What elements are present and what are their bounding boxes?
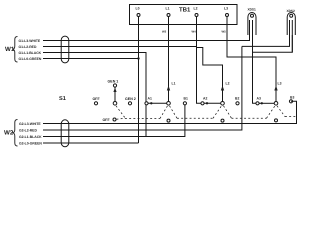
switch S1 pivot 2 [221,102,225,106]
svg-text:S1: S1 [59,96,66,102]
switch S1 pivot 1 [167,102,171,106]
switch S1 contact B1 [183,102,186,105]
wire G1-L0-GREEN from W1 to L0 riser junction [43,58,139,60]
svg-text:B1: B1 [184,97,188,101]
svg-text:G2-L2-RED: G2-L2-RED [19,129,37,133]
OFF position contact circle on linkage [113,118,116,121]
junction dot at A1 arm [150,102,152,104]
arrowhead wiper pole 2 pointing up [221,86,224,91]
wire: riser from contact A1 down to W2 black [145,105,147,137]
wire arm A3 to pivot 3 [259,102,274,104]
svg-text:L1: L1 [172,82,176,86]
svg-text:G2-L1-BLACK: G2-L1-BLACK [19,135,42,139]
lamp XDS2 tip contact circle [290,14,293,17]
switch S1 pivot 3 [274,102,278,106]
XDS2 right lead [291,20,293,52]
svg-text:W3: W3 [162,30,167,34]
switch S1 pole 0: GEN1 contact [113,84,116,87]
svg-text:G1-L1-BLACK: G1-L1-BLACK [19,51,42,55]
svg-text:XDS2: XDS2 [287,9,296,13]
lamp XDS1 tip contact circle [251,14,254,17]
svg-text:G1-L2-RED: G1-L2-RED [19,45,37,49]
svg-text:OFF: OFF [93,97,101,101]
svg-text:G2-L3-WHITE: G2-L3-WHITE [19,122,41,126]
svg-text:L0: L0 [136,6,140,10]
terminal L2 of TB1 [195,14,198,17]
wire: L0 riser continues down to W2 green wire [138,59,140,144]
svg-text:A2: A2 [203,97,207,101]
wire: TB1-L3 riser right and down to switch pivot 3 [227,17,276,102]
svg-text:G1-L0-GREEN: G1-L0-GREEN [19,57,42,61]
junction dot at A3 arm [261,102,263,104]
wire G2-L2-RED from W2 up to lamp XDS1 center-lead riser [43,46,242,130]
arrowhead wiper pole 0 [113,88,116,93]
wire G2-L3-WHITE from W2 to contact B3 riser [43,101,297,123]
wire arm A1 to pivot 1 [148,102,167,104]
wire: TB1-L0 riser down to junction with G1-L0-GREEN [138,17,140,59]
wire G1-L1-BLACK from W1 down to contact A1 [43,53,146,102]
svg-text:A3: A3 [257,97,261,101]
svg-text:B2: B2 [235,97,239,101]
svg-text:G1-L3-WHITE: G1-L3-WHITE [19,39,41,43]
junction dot at A2 arm [206,102,208,104]
wire G1-L2-RED from W1 to L2 riser [43,46,197,48]
cable W2 bundle ellipse [61,120,69,147]
switch S1 contact A1 [145,102,148,105]
lampholder XDS1 shell [248,12,256,35]
detent contact under pivot 2 [221,119,224,122]
svg-text:OFF: OFF [103,118,111,122]
svg-text:W4: W4 [192,30,197,34]
svg-text:GEN 2: GEN 2 [125,97,136,101]
switch S1 pole 0: OFF contact [94,102,97,105]
wire G1-L3-WHITE from W1 to lampholder XDS1 left lead [43,33,250,41]
wire G2-L0-GREEN from W2 to L0 riser [43,142,139,144]
switch S1 pole 0 pivot [113,102,117,106]
wire arm A2 to pivot 2 [204,102,221,104]
switch S1 contact B3 [289,100,292,103]
brace for W2 cable [12,120,17,147]
svg-text:L2: L2 [226,82,230,86]
wire: stub from L2 riser to pivot-2 feed [197,48,223,102]
switch S1 contact B2 [236,102,239,105]
brace for W1 cable [12,37,17,63]
wire: TB1-L2 riser down to contact A2 [197,17,201,104]
switch S1 contact A2 [201,102,204,105]
terminal L0 of TB1 [137,14,140,17]
mechanical linkage dashed line of S1 [116,106,296,120]
terminal L3 of TB1 [226,14,229,17]
arrowhead wiper pole 3 pointing up [274,86,277,91]
wire: lamp leads cross-tie to W2 red riser and XDS2 left lead [242,35,290,46]
svg-text:GEN 1: GEN 1 [108,80,119,84]
svg-text:B3: B3 [290,96,294,100]
XDS1 right lead down to contact A3 [253,20,257,103]
switch S1 pole 0 wiper arm [114,88,116,102]
detent contact under pivot 3 [275,119,278,122]
svg-text:G2-L0-GREEN: G2-L0-GREEN [19,142,42,146]
lampholder XDS2 shell [287,13,295,35]
svg-text:A1: A1 [148,97,152,101]
switch S1 pole 0: GEN2 contact [128,102,131,105]
svg-text:L3: L3 [278,82,282,86]
wire: TB1-L1 riser down to switch pivot 1 [168,17,170,102]
svg-text:W5: W5 [222,30,227,34]
terminal L1 of TB1 [167,14,170,17]
wire: XDS1 center lead tie to XDS2 right lead [253,35,293,52]
svg-text:L1: L1 [166,6,170,10]
terminal board TB1 [130,5,238,25]
junction dot L0/green W1 [137,57,139,59]
svg-text:TB1: TB1 [179,7,191,14]
svg-text:L3: L3 [224,6,228,10]
detent contact under pivot 1 [167,119,170,122]
XDS2 left lead [289,20,291,46]
switch S1 contact A3 [256,102,259,105]
svg-text:XDS1: XDS1 [248,8,257,12]
wire G2-L1-BLACK from W2 up to contact B1 [43,105,185,137]
svg-text:L2: L2 [194,6,198,10]
cable W1 bundle ellipse [61,36,69,63]
arrowhead wiper pole 1 pointing up [167,86,170,91]
XDS1 left lead [249,20,251,41]
